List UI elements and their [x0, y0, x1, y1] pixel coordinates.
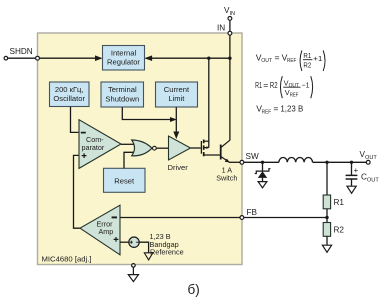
- junction dot rail/branch: [228, 57, 231, 60]
- wire COUT stub: [351, 162, 353, 175]
- resistor R1: [323, 195, 330, 209]
- wire branch to Internal Regulator right: [146, 57, 230, 59]
- svg-text:=: =: [275, 52, 280, 62]
- wire current limit down to driver: [175, 107, 177, 132]
- svg-text:REF: REF: [290, 93, 299, 99]
- svg-text:REF: REF: [287, 58, 297, 64]
- svg-text:Amp: Amp: [99, 227, 114, 236]
- svg-text:Reference: Reference: [150, 247, 184, 256]
- arrowhead TS into CL line: [170, 117, 177, 122]
- diode D1 body: [258, 171, 267, 178]
- arrowhead into Internal Regulator left: [95, 55, 103, 61]
- terminal VOUT: [366, 160, 370, 164]
- block U1 Internal Regulator: [103, 46, 145, 71]
- wire bandgap to error amp plus: [120, 241, 129, 243]
- wire FB to divider junction: [244, 217, 327, 219]
- block Terminal Shutdown: [101, 82, 144, 107]
- wire R1 branch: [326, 162, 328, 195]
- wire bandgap to ground: [139, 242, 148, 253]
- svg-text:IN: IN: [217, 24, 225, 33]
- svg-text:Shutdown: Shutdown: [105, 95, 139, 104]
- svg-text:R1: R1: [334, 198, 345, 207]
- resistor R2: [323, 223, 330, 237]
- wire drain stub: [204, 140, 209, 142]
- minus marker comparator: [81, 132, 86, 134]
- bubble NOR output: [153, 146, 157, 150]
- formula VREF: [256, 104, 303, 116]
- svg-text:Terminal: Terminal: [108, 85, 137, 94]
- wire COUT to ground: [351, 179, 353, 186]
- svg-text:б): б): [188, 282, 200, 297]
- svg-text:R1: R1: [303, 51, 311, 60]
- wire diode stub: [262, 162, 264, 171]
- wire R2 to ground: [326, 236, 328, 245]
- capacitor COUT plates: [346, 175, 358, 179]
- svg-text:FB: FB: [247, 208, 258, 217]
- svg-text:=: =: [263, 80, 268, 90]
- transistor Q1 mosfet channel segments: [203, 140, 205, 157]
- wire source stub to BJT base: [204, 154, 221, 156]
- svg-text:Current: Current: [164, 85, 190, 94]
- formula VOUT: [256, 50, 325, 71]
- wire inductor to VOUT: [313, 161, 367, 163]
- wire driver to gate: [191, 147, 201, 149]
- wire NOR to driver: [156, 147, 168, 149]
- pin SHDN on IC edge: [36, 56, 40, 60]
- svg-text:R2: R2: [270, 80, 278, 90]
- source bandgap circle: [129, 237, 139, 247]
- formula R1: [255, 76, 313, 98]
- wire FB line inside IC: [120, 217, 240, 219]
- ground bandgap: [144, 253, 153, 260]
- wire terminal shutdown output: [122, 107, 170, 119]
- wire SHDN input: [8, 57, 96, 59]
- wire VIN to IN: [229, 20, 231, 31]
- svg-text:MIC4680 [adj.]: MIC4680 [adj.]: [42, 255, 92, 264]
- junction dot COUT branch: [350, 161, 353, 164]
- block Current Limit: [156, 82, 198, 107]
- wire reset to NOR: [124, 152, 134, 168]
- diode D1 schottky cathode bar: [255, 169, 271, 174]
- junction dot FB: [325, 216, 328, 219]
- wire IN rail down to switch collector: [229, 35, 231, 140]
- svg-text:+: +: [354, 166, 359, 175]
- wire comparator output to NOR: [121, 143, 135, 145]
- wire oscillator to comparator minus: [71, 107, 79, 133]
- ground diode: [258, 182, 267, 188]
- gate NOR: [132, 140, 152, 156]
- terminal VIN: [228, 17, 232, 21]
- wire feedback erroramp to comparator plus: [74, 155, 81, 228]
- svg-text:COUT: COUT: [361, 173, 379, 184]
- transistor Q2 collector: [221, 140, 230, 147]
- wire body stub with arrow: [205, 147, 209, 149]
- svg-text:Oscillator: Oscillator: [53, 94, 85, 103]
- inductor L1: [279, 158, 313, 163]
- svg-text:+1: +1: [313, 54, 322, 63]
- buffer Driver: [169, 136, 191, 160]
- svg-text:−1: −1: [302, 81, 310, 90]
- transistor Q2 BJT base bar: [220, 145, 222, 160]
- svg-text:200 кГц,: 200 кГц,: [55, 85, 84, 94]
- minus marker error amp: [112, 216, 117, 218]
- svg-text:Switch: Switch: [216, 174, 237, 183]
- svg-text:parator: parator: [82, 143, 105, 152]
- svg-text:=: =: [273, 104, 278, 114]
- svg-text:Internal: Internal: [111, 49, 137, 58]
- svg-text:1,23 В: 1,23 В: [280, 104, 303, 114]
- svg-text:SW: SW: [246, 152, 259, 161]
- svg-text:VIN: VIN: [224, 6, 235, 17]
- pin IN on IC edge: [228, 31, 232, 35]
- wire emitter to SW pin: [229, 161, 240, 163]
- transistor Q2 emitter with arrow: [221, 156, 229, 162]
- block 200 kHz Oscillator: [50, 82, 90, 107]
- junction dot diode: [261, 161, 264, 164]
- svg-text:R2: R2: [303, 61, 311, 70]
- ground R2: [322, 245, 331, 252]
- block Reset: [104, 168, 146, 192]
- arrowhead into driver top: [173, 132, 179, 140]
- plus marker error amp: [114, 237, 119, 242]
- svg-text:VOUT: VOUT: [360, 150, 378, 161]
- op-amp comparator: [79, 120, 121, 169]
- wire diode to ground: [262, 178, 264, 182]
- op-amp Error Amp: [80, 205, 120, 255]
- pin SW: [240, 160, 244, 164]
- junction dot on branch: [207, 57, 210, 60]
- terminal SHDN: [4, 56, 8, 60]
- svg-text:SHDN: SHDN: [10, 47, 33, 56]
- svg-text:OUT: OUT: [289, 83, 300, 89]
- plus marker comparator: [82, 153, 87, 158]
- svg-text:REF: REF: [262, 109, 272, 115]
- pin FB: [240, 216, 244, 220]
- svg-text:R1: R1: [255, 80, 262, 90]
- svg-text:Reset: Reset: [114, 177, 135, 186]
- pin GND bottom: [132, 264, 136, 268]
- IC body MIC4680: [38, 33, 243, 265]
- transistor Q1 mosfet gate bar: [200, 141, 202, 154]
- wire R1 to R2: [326, 209, 328, 223]
- svg-text:Limit: Limit: [168, 94, 185, 103]
- svg-text:OUT: OUT: [261, 58, 273, 64]
- wire SW to inductor: [244, 161, 279, 163]
- ground COUT: [347, 186, 356, 193]
- svg-text:R2: R2: [334, 226, 345, 235]
- arrowhead into Internal Regulator right: [145, 55, 153, 61]
- wire drain vertical: [208, 58, 210, 147]
- junction dot R1 branch: [325, 161, 328, 164]
- ground IC bottom: [128, 275, 138, 282]
- svg-text:Driver: Driver: [168, 163, 189, 172]
- svg-text:Regulator: Regulator: [107, 58, 140, 67]
- wire GND stem: [132, 267, 134, 274]
